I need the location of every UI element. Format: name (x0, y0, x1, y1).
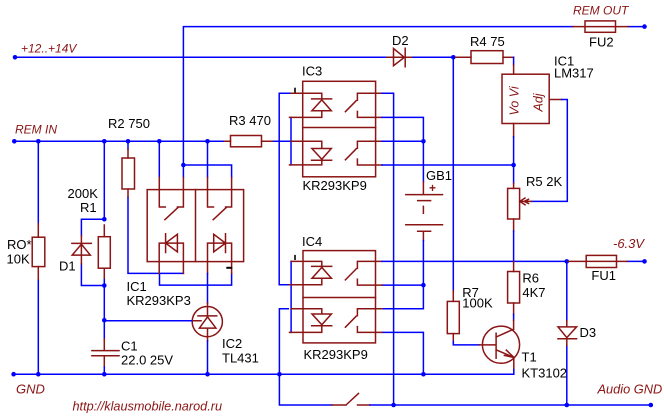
shunt reg IC2 TL431 (192, 303, 223, 341)
wire IC4 LED link (290, 261, 292, 332)
svg-text:http://klausmobile.narod.ru: http://klausmobile.narod.ru (73, 399, 223, 413)
wire IC3 LED cathodes link (290, 117, 292, 164)
KP3 LED2 (208, 234, 232, 274)
wire IC4 LED2 to GND and switch (vertical B) (279, 309, 332, 405)
svg-text:R6: R6 (522, 270, 539, 285)
wire +12..+14V rail (15, 56, 453, 58)
wire IC4 sw1B row (382, 284, 423, 286)
svg-text:+12..+14V: +12..+14V (21, 42, 77, 56)
svg-text:10K: 10K (7, 252, 30, 267)
wire R5 to R6 (513, 231, 515, 261)
node GND IC4 switch (421, 372, 426, 377)
KP3 channel2 switch (208, 178, 232, 220)
wire IC3 pin1 to IC4 LED (vertical A) (279, 93, 291, 285)
svg-text:LM317: LM317 (554, 66, 594, 81)
node audio gnd end (649, 403, 654, 408)
svg-text:IC4: IC4 (302, 234, 322, 249)
wire KP3 LED2 to TL431 (207, 274, 209, 304)
node GND start (11, 372, 16, 377)
wire Vo to node (513, 137, 515, 184)
regulator IC1 LM317 box (502, 65, 549, 124)
wire R6 to collector (513, 314, 515, 320)
tick polarity IC4 (294, 256, 296, 260)
wire Audio GND rail (370, 404, 651, 406)
switch S bottom (332, 393, 370, 405)
IC4 switch2 (345, 309, 382, 333)
svg-text:FU1: FU1 (591, 268, 616, 283)
diode D3 (558, 321, 577, 346)
svg-text:IC1: IC1 (127, 279, 147, 294)
wire REM IN rail (14, 140, 224, 142)
resistor R2 (122, 149, 135, 197)
svg-text:TL431: TL431 (222, 351, 259, 366)
wire R3 to IC3 (274, 140, 292, 142)
node R1 top (102, 217, 107, 222)
optocoupler IC3 box (303, 81, 376, 177)
svg-text:100K: 100K (462, 296, 493, 311)
diode D2 (387, 48, 412, 67)
svg-text:REM IN: REM IN (15, 123, 57, 137)
svg-text:C1: C1 (121, 338, 138, 353)
node audio gnd switch (391, 403, 396, 408)
wire IC4 sw2B to GND (382, 332, 423, 374)
optocoupler IC4 box (303, 251, 376, 343)
node audio gnd D3 (565, 403, 570, 408)
resistor R7 (447, 291, 459, 342)
svg-text:R5 2K: R5 2K (526, 174, 562, 189)
svg-text:-6.3V: -6.3V (613, 236, 645, 251)
battery GB1 (406, 182, 443, 241)
label minus KP3 (227, 267, 231, 269)
resistor R0 (32, 224, 45, 279)
wire KP3 pins from rails (159, 141, 231, 177)
wire GND rail (14, 373, 514, 375)
fuse FU2 (573, 21, 628, 32)
wire R0 to rail (37, 141, 39, 374)
svg-text:R1: R1 (80, 200, 97, 215)
svg-text:T1: T1 (522, 350, 537, 365)
svg-text:REM OUT: REM OUT (573, 4, 630, 18)
svg-text:Vo Vi: Vo Vi (508, 85, 522, 115)
wire TL431 ref (104, 320, 191, 322)
wire R2 to LED KP3 (128, 141, 232, 285)
node end -6.3V (642, 259, 647, 264)
wire D1 branch (81, 219, 104, 285)
wire emitter to GND (513, 370, 515, 375)
node KP3 branch junction (181, 163, 186, 168)
wire R1 branch (103, 141, 105, 339)
IC3 switch2 (345, 141, 382, 165)
node battery minus tee (421, 283, 426, 288)
svg-text:KT3102: KT3102 (522, 365, 568, 380)
fuse FU1 (567, 255, 627, 267)
svg-text:GND: GND (16, 382, 45, 397)
node Vo R5 (511, 163, 516, 168)
wire R4 to LM317 Vi (513, 57, 515, 65)
svg-text:R4 75: R4 75 (470, 34, 505, 49)
diode D1 (72, 236, 91, 264)
svg-text:KR293KP3: KR293KP3 (127, 293, 191, 308)
IC4 LED2 (290, 309, 332, 333)
resistor R4 (471, 51, 514, 64)
LM317 Vo pin (513, 124, 515, 137)
wire C1 to GND (103, 367, 105, 374)
wire IC3 sw1B to battery plus (382, 117, 423, 181)
wire Adj to R5 wiper (532, 100, 568, 202)
wire IC3 sw1A down to audio gnd (long vertical) (382, 93, 394, 405)
potentiometer R5 (508, 183, 532, 231)
svg-text:200K: 200K (68, 186, 99, 201)
IC4 switch1 (345, 261, 382, 285)
node +12V / R4 / R7 tee (451, 55, 456, 60)
node start REM IN (12, 139, 17, 144)
svg-text:FU2: FU2 (589, 35, 614, 50)
svg-text:IC2: IC2 (222, 336, 242, 351)
tick polarity IC3 (294, 89, 296, 93)
label IC3 (KP3) channel1 switch (159, 178, 183, 220)
transistor T1 (480, 320, 520, 369)
resistor R1 (98, 225, 110, 278)
node REM IN / R2 (126, 139, 131, 144)
node GND TL431 (205, 372, 210, 377)
optocoupler IC1 KR293KP3 box (147, 190, 243, 262)
node start +12V (13, 55, 18, 60)
svg-text:IC3: IC3 (302, 64, 322, 79)
node battery plus tee (421, 139, 426, 144)
IC3 switch1 (345, 93, 382, 117)
svg-text:D1: D1 (59, 259, 76, 274)
wire IC3 sw2A to battery plus (382, 140, 423, 142)
capacitor C1 (92, 339, 119, 367)
IC4 LED1 (290, 261, 332, 284)
resistor R3 (225, 136, 274, 147)
svg-text:22.0 25V: 22.0 25V (121, 353, 173, 368)
LM317 Adj pin (549, 99, 562, 101)
wire R7 to base (453, 342, 479, 345)
svg-text:RO*: RO* (7, 237, 32, 252)
IC3 LED1 (290, 93, 332, 117)
wire IC3 sw2B to LM317 Vo (382, 164, 514, 166)
node FU1 D3 (565, 259, 570, 264)
wire TL431 anode to GND (207, 341, 209, 374)
svg-text:Adj: Adj (532, 92, 546, 112)
node C1 / TL431 ref (102, 318, 107, 323)
svg-text:R2 750: R2 750 (108, 116, 150, 131)
node R1 bottom / D1 (102, 283, 107, 288)
IC3 LED2 (290, 141, 332, 165)
KP3 LED1 (159, 234, 183, 274)
wire D3 branch (566, 261, 568, 405)
node GND R0 (36, 372, 41, 377)
svg-text:R3 470: R3 470 (229, 113, 271, 128)
node REM IN / KP3 pin2 (205, 139, 210, 144)
node REM IN / R1 D1 (102, 139, 107, 144)
svg-text:4K7: 4K7 (522, 285, 545, 300)
wire IC4 sw1A to -6.3V (382, 260, 645, 262)
svg-text:D2: D2 (392, 33, 409, 48)
svg-text:+: + (429, 181, 436, 195)
node GND vertical B (277, 372, 282, 377)
node REM IN / KP3 pin (157, 139, 162, 144)
node GND C1 (102, 372, 107, 377)
wire battery minus (382, 241, 423, 309)
node end REM OUT (642, 24, 647, 29)
svg-text:D3: D3 (580, 325, 597, 340)
svg-text:KR293KP9: KR293KP9 (303, 178, 367, 193)
node REM IN / R0 (36, 139, 41, 144)
svg-text:KR293KP9: KR293KP9 (304, 347, 368, 362)
resistor R6 (508, 261, 520, 314)
svg-text:Audio GND: Audio GND (597, 381, 663, 396)
wire +12V to R7 (452, 57, 454, 290)
wire R4 from +12V node (456, 56, 471, 58)
wire REM OUT rail (183, 27, 644, 178)
